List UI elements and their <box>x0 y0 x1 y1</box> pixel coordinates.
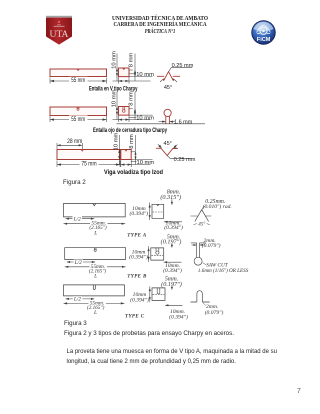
svg-text:(0.394"): (0.394") <box>164 224 183 231</box>
width dim 10mm row2 <box>113 115 153 122</box>
dim 55mm typeC <box>64 302 125 304</box>
svg-text:75 mm: 75 mm <box>81 161 96 167</box>
width dim 10mm izod <box>115 160 153 168</box>
notch detail row1 <box>157 72 180 81</box>
cross-section square typeC <box>152 288 165 301</box>
svg-text:L: L <box>93 273 97 279</box>
svg-text:10 mm: 10 mm <box>136 115 154 121</box>
svg-text:L: L <box>93 310 97 316</box>
vertical dim 8mm row2 <box>129 92 135 120</box>
svg-text:8 mm: 8 mm <box>128 91 134 106</box>
cross-section square row1 <box>119 68 130 77</box>
svg-text:55 mm: 55 mm <box>71 78 85 84</box>
dim 10mm left typeB <box>148 246 150 262</box>
svg-text:55 mm: 55 mm <box>71 117 85 123</box>
dimension 75mm izod <box>57 161 120 168</box>
dim L/2 typeA <box>66 218 95 220</box>
specimen bar typeA <box>63 204 125 217</box>
svg-text:L: L <box>93 231 97 237</box>
specimen bar typeB <box>65 248 126 260</box>
dim 10mm left typeA <box>149 203 151 221</box>
svg-text:1.6 mm: 1.6 mm <box>174 119 193 125</box>
svg-text:0.25 mm: 0.25 mm <box>174 157 196 163</box>
svg-text:1.6mm (1/16") OR LESS: 1.6mm (1/16") OR LESS <box>198 267 249 274</box>
specimen bar izod <box>57 150 120 160</box>
svg-text:Viga voladiza tipo Izod: Viga voladiza tipo Izod <box>104 169 163 176</box>
svg-text:10 mm: 10 mm <box>137 160 155 166</box>
svg-text:(0.394"): (0.394") <box>129 210 148 217</box>
vertical dim 8mm row1 <box>129 54 135 82</box>
dim 55mm typeA <box>64 223 126 225</box>
dim L/2 typeC <box>66 298 95 300</box>
cross-section square izod <box>121 150 131 160</box>
svg-text:(0.079"): (0.079") <box>202 242 221 249</box>
specimen bar typeC <box>64 285 125 296</box>
notch detail typeA <box>191 215 212 217</box>
figura 2 label <box>63 180 86 186</box>
svg-text:(0.197"): (0.197") <box>161 239 182 246</box>
vertical dim 10mm izod <box>118 135 120 165</box>
width dim 10mm row1 <box>113 74 153 84</box>
dim 10mm bottom typeC <box>165 304 183 306</box>
svg-text:(0.394"): (0.394") <box>163 267 182 274</box>
svg-text:TYPE C: TYPE C <box>125 314 145 319</box>
dim 10mm bottom typeB <box>164 261 182 263</box>
page number <box>297 387 301 395</box>
svg-text:(0.079"): (0.079") <box>205 309 224 316</box>
svg-text:TYPE B: TYPE B <box>127 275 147 280</box>
slot detail typeC <box>191 291 210 302</box>
vertical dim 8mm izod <box>131 135 135 165</box>
svg-text:45°: 45° <box>198 223 205 228</box>
svg-text:8 mm: 8 mm <box>128 53 134 68</box>
svg-text:0.25 mm: 0.25 mm <box>172 63 194 69</box>
svg-text:TYPE A: TYPE A <box>127 234 147 239</box>
svg-text:(2.165"): (2.165") <box>89 267 107 274</box>
svg-text:(2.165"): (2.165") <box>89 224 107 231</box>
svg-text:L/2: L/2 <box>73 217 81 223</box>
keyhole detail typeB <box>191 243 206 265</box>
svg-text:8 mm: 8 mm <box>129 134 135 149</box>
svg-text:(0.394"): (0.394") <box>129 253 148 260</box>
specimen bar row2 <box>50 107 107 116</box>
vertical dim 10mm row1 <box>116 54 118 82</box>
notch detail izod <box>156 148 178 155</box>
svg-text:(0.394"): (0.394") <box>130 296 149 303</box>
FICM logo <box>251 20 276 45</box>
svg-text:28 mm: 28 mm <box>67 139 82 145</box>
svg-text:10 mm: 10 mm <box>136 72 154 78</box>
svg-text:(0.394"): (0.394") <box>169 313 188 320</box>
dim 10mm bottom typeA <box>164 221 182 223</box>
vertical dim 10mm row2 <box>116 92 118 120</box>
dim 10mm left typeC <box>149 286 151 302</box>
dimension 55mm row1 <box>50 78 107 84</box>
svg-text:(0.315"): (0.315") <box>160 194 181 201</box>
specimen bar row1 <box>50 69 107 77</box>
svg-text:45°: 45° <box>164 141 172 147</box>
dimension 28mm izod <box>57 143 82 149</box>
cross-section square row2 <box>119 107 130 116</box>
svg-text:10 mm: 10 mm <box>114 132 120 150</box>
keyhole notch detail row2 <box>164 109 171 124</box>
svg-text:10 mm: 10 mm <box>111 51 117 69</box>
svg-text:10 mm: 10 mm <box>111 89 117 107</box>
header text block <box>23 16 298 22</box>
dim 55mm typeB <box>65 266 126 268</box>
svg-text:(0.010") rad.: (0.010") rad. <box>203 203 232 210</box>
bottom captions <box>64 321 87 327</box>
cross-section square typeA <box>152 204 164 218</box>
svg-text:Entalla ojo de cerradura tipo: Entalla ojo de cerradura tipo Charpy <box>93 127 167 134</box>
dim L/2 typeB <box>67 261 96 263</box>
svg-text:L/2: L/2 <box>74 260 82 266</box>
cross-section square typeB <box>151 248 164 260</box>
svg-text:L/2: L/2 <box>73 297 81 303</box>
UTA logo <box>45 15 73 46</box>
svg-text:45°: 45° <box>164 85 172 91</box>
dimension 55mm row2 <box>50 116 107 122</box>
